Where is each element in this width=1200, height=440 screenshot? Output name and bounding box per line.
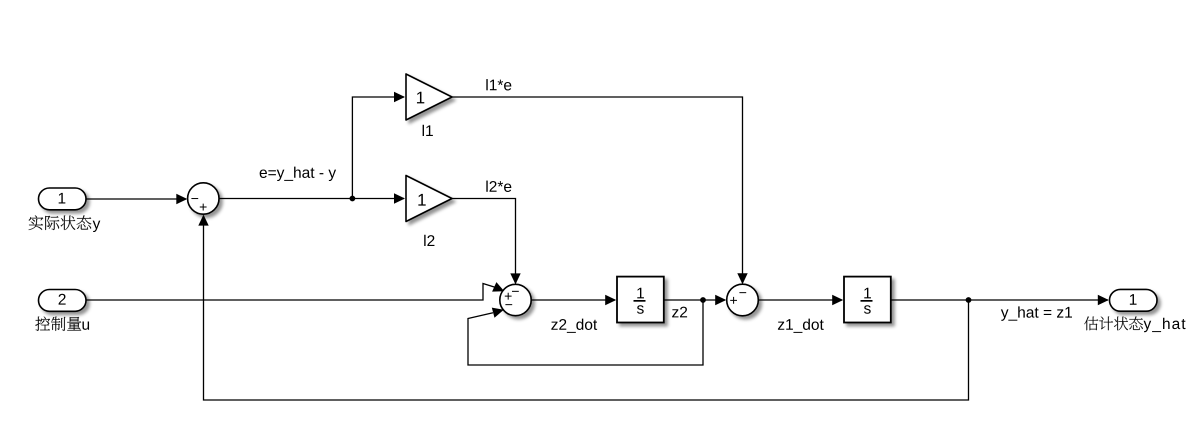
label In2 name 控制量u <box>35 317 81 331</box>
wire: Integrator2 output (y_hat) to Out1 <box>891 299 1108 301</box>
wire: Integrator1 output (z2) to Sum3 <box>664 299 725 301</box>
sum block Sum3 <box>727 284 759 316</box>
integrator block Integrator1 (1/s) <box>617 277 664 323</box>
sum block Sum2 <box>500 284 531 315</box>
wire: node e up and to Gain l1 <box>352 97 404 199</box>
outport block Out1 <box>1110 289 1158 311</box>
label e=y_hat - y <box>260 167 336 181</box>
wire: node e to Gain l2 <box>352 198 404 200</box>
wire: Sum3 output (z1_dot) to Integrator2 <box>759 299 842 301</box>
wire: Gain l1 output (l1*e) down to Sum3 top <box>452 97 743 283</box>
wire: In2 (u) across to Sum2 upper-left port <box>86 284 495 301</box>
node y_hat junction dot <box>966 297 972 303</box>
integrator block Integrator2 (1/s) <box>844 277 891 323</box>
wire: Sum1 output to node e <box>219 198 352 200</box>
label z2_dot <box>551 319 597 333</box>
label z1_dot <box>778 319 824 333</box>
node z2 junction dot <box>700 297 706 303</box>
label Out1 name 估计状态y_hat <box>1084 317 1143 331</box>
label l1 <box>423 125 433 136</box>
wire: y_hat feedback loop to Sum1 bottom <box>204 216 969 400</box>
node e junction dot <box>350 196 356 202</box>
wire: Gain l2 output (l2*e) down to Sum2 top <box>452 199 516 284</box>
wire: Sum2 output (z2_dot) to Integrator1 <box>531 299 615 301</box>
gain block l2 <box>406 176 452 222</box>
label l2 <box>424 235 434 246</box>
label z2 <box>672 307 687 318</box>
label y_hat = z1 <box>1001 306 1072 320</box>
label l2*e <box>486 181 511 192</box>
wire: z2 feedback loop to Sum2 lower-left port <box>468 300 703 365</box>
sum block Sum1 <box>188 183 219 214</box>
wire: In1 to Sum1 <box>86 198 186 200</box>
gain block l1 <box>406 74 452 120</box>
inport block In2 <box>39 290 87 312</box>
label l1*e <box>486 79 511 90</box>
label In1 name 实际状态y <box>29 215 92 230</box>
inport block In1 <box>39 188 87 210</box>
